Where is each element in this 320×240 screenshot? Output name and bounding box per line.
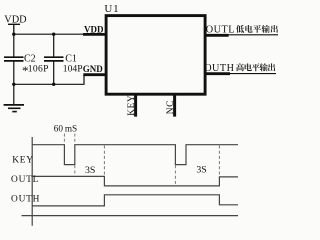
svg-text:OUTH: OUTH xyxy=(204,63,234,74)
svg-text:OUTH: OUTH xyxy=(11,195,40,205)
svg-text:U1: U1 xyxy=(104,3,119,15)
svg-text:KEY: KEY xyxy=(12,156,34,166)
svg-text:OUTL: OUTL xyxy=(206,25,235,36)
svg-text:60: 60 xyxy=(54,124,64,134)
svg-text:3S: 3S xyxy=(85,165,95,176)
svg-text:mS: mS xyxy=(65,124,77,134)
svg-text:VDD: VDD xyxy=(4,14,27,25)
svg-text:NC: NC xyxy=(166,100,176,114)
svg-text:3S: 3S xyxy=(196,164,206,175)
svg-text:OUTL: OUTL xyxy=(11,175,39,185)
svg-text:GND: GND xyxy=(83,64,104,74)
svg-text:KEY: KEY xyxy=(127,95,137,116)
svg-text:104P: 104P xyxy=(63,63,83,74)
svg-text:VDD: VDD xyxy=(84,25,104,35)
svg-text:106P: 106P xyxy=(28,63,49,74)
